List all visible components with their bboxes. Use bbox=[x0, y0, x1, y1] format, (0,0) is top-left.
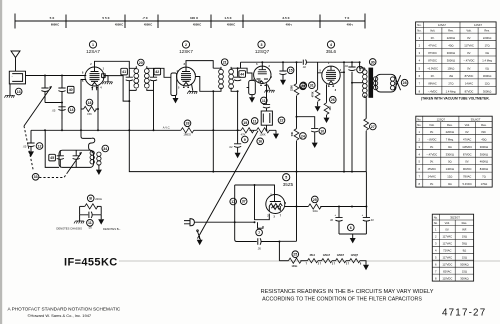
svg-text:.02: .02 bbox=[229, 145, 233, 149]
svg-text:88VAC: 88VAC bbox=[428, 82, 436, 86]
bus end B- arrow bbox=[275, 130, 277, 133]
svg-text:17: 17 bbox=[231, 200, 235, 204]
T1 primary winding bbox=[134, 69, 139, 88]
svg-text:0V.: 0V. bbox=[431, 74, 435, 78]
refs 17 36 bbox=[230, 198, 237, 205]
capacitor C12 .05 bbox=[30, 130, 32, 142]
tube V2 12SK7 label bbox=[179, 41, 193, 54]
filter B- arrow bbox=[352, 234, 354, 238]
svg-text:12SK7: 12SK7 bbox=[179, 49, 193, 54]
ref 24 bbox=[300, 133, 307, 140]
svg-text:.02: .02 bbox=[344, 64, 348, 68]
tube V3 12SQ7 envelope bbox=[254, 66, 271, 83]
tube V4 35L6 envelope bbox=[322, 66, 340, 84]
svg-text:16: 16 bbox=[258, 140, 262, 144]
wire pin34 down to bus bbox=[97, 109, 99, 130]
legend cap ref 11 bbox=[87, 220, 94, 227]
ref 27 bbox=[370, 123, 377, 130]
svg-text:No.: No. bbox=[434, 215, 438, 219]
svg-text:Volt.: Volt. bbox=[466, 29, 471, 33]
ref 16 bbox=[257, 138, 264, 145]
R31 B- arrow bbox=[317, 102, 319, 106]
svg-text:11: 11 bbox=[253, 119, 257, 123]
svg-text:30: 30 bbox=[371, 60, 375, 64]
svg-text:18: 18 bbox=[88, 101, 92, 105]
svg-text:Res.: Res. bbox=[447, 123, 453, 127]
resistor R27 bbox=[364, 119, 369, 131]
volume control R16 bbox=[249, 80, 256, 94]
svg-text:0V.: 0V. bbox=[445, 228, 449, 232]
node T2 right top bbox=[237, 67, 239, 69]
svg-text:12SK7: 12SK7 bbox=[474, 23, 483, 27]
svg-text:42: 42 bbox=[155, 70, 159, 74]
node T2 bottom right bbox=[237, 90, 239, 92]
voltage table V5 bbox=[432, 214, 473, 281]
T1 bottoms to AVC bus bbox=[129, 81, 153, 130]
svg-text:25: 25 bbox=[313, 198, 317, 202]
V1 grid stub + box 43 bbox=[104, 75, 108, 77]
svg-text:7: 7 bbox=[258, 231, 260, 235]
svg-text:11: 11 bbox=[262, 99, 266, 103]
svg-text:–.8VDC: –.8VDC bbox=[427, 137, 436, 141]
svg-text:24: 24 bbox=[301, 134, 305, 138]
svg-text:A.V.C.: A.V.C. bbox=[163, 125, 171, 129]
svg-text:0V.: 0V. bbox=[430, 182, 434, 186]
osc variable cap C1B bbox=[75, 150, 77, 155]
svg-text:26: 26 bbox=[331, 98, 335, 102]
osc coil right bbox=[97, 152, 101, 165]
svg-text:12SA7: 12SA7 bbox=[438, 23, 447, 27]
T3 secondary bbox=[373, 77, 377, 90]
svg-text:87VDC: 87VDC bbox=[463, 152, 472, 156]
svg-text:Volt.: Volt. bbox=[465, 123, 470, 127]
V2 chassis ground bbox=[192, 84, 193, 91]
resistor R19 on bus bbox=[241, 128, 254, 133]
wire R23 to junction bbox=[296, 96, 298, 129]
heater 12SQ7 bbox=[346, 254, 362, 265]
node cap40 top bbox=[61, 75, 63, 77]
svg-text:500KΩ: 500KΩ bbox=[460, 262, 468, 266]
ref 25 bbox=[292, 251, 299, 258]
legend example ref B bbox=[87, 195, 94, 202]
scale tick 6 bbox=[242, 15, 244, 29]
V3 chassis ground bbox=[268, 85, 270, 90]
T1 secondary cap C42 bbox=[150, 77, 157, 81]
V5 internals bbox=[269, 197, 282, 207]
T2 primary winding bbox=[219, 69, 224, 89]
V1 heater arrows bbox=[91, 86, 97, 90]
svg-text:35L6: 35L6 bbox=[326, 49, 337, 54]
ref 23 bbox=[300, 83, 307, 90]
V1 left cathode wire down bbox=[81, 80, 86, 131]
scale gain labels bbox=[50, 16, 351, 20]
svg-text:47VAC: 47VAC bbox=[463, 137, 471, 141]
ref 28b bbox=[184, 120, 191, 127]
svg-text:5: 5 bbox=[285, 176, 287, 180]
variable capacitor C1A (tuning) bbox=[41, 76, 48, 103]
capacitor C10 bbox=[311, 128, 318, 132]
legend resistor bbox=[80, 204, 102, 209]
gang dashed link bbox=[24, 126, 33, 170]
svg-text:4: 4 bbox=[330, 43, 332, 47]
svg-text:41: 41 bbox=[122, 70, 126, 74]
svg-text:No.: No. bbox=[417, 29, 421, 33]
svg-text:.05: .05 bbox=[23, 145, 27, 149]
box ref 42 bbox=[154, 68, 161, 75]
osc tuning arrow bbox=[68, 153, 82, 173]
svg-text:INF.: INF. bbox=[482, 130, 487, 134]
svg-text:35L6GT: 35L6GT bbox=[471, 117, 481, 121]
C9 B- arrow bbox=[235, 153, 241, 158]
svg-text:87VDC: 87VDC bbox=[465, 74, 474, 78]
svg-text:–.47VDC: –.47VDC bbox=[464, 59, 475, 63]
svg-text:39Ω: 39Ω bbox=[462, 242, 467, 246]
svg-text:B: B bbox=[89, 197, 92, 201]
svg-text:22: 22 bbox=[280, 119, 284, 123]
capacitor C7 bbox=[258, 238, 261, 244]
grid resistor R31 470K bbox=[317, 73, 319, 90]
V1 internals bbox=[90, 67, 100, 85]
svg-text:20: 20 bbox=[139, 61, 143, 65]
V1 pin numbers bbox=[82, 63, 105, 90]
ref 6 bbox=[348, 224, 355, 231]
svg-text:–.4VDC: –.4VDC bbox=[428, 89, 437, 93]
svg-text:.7 X: .7 X bbox=[142, 16, 148, 20]
svg-text:87VDC: 87VDC bbox=[465, 89, 474, 93]
ref 10 bbox=[319, 128, 326, 135]
scale tick 2 bbox=[65, 15, 67, 29]
svg-text:28: 28 bbox=[403, 81, 407, 85]
T1 secondary winding bbox=[144, 69, 149, 88]
resistor R24 bbox=[294, 129, 299, 141]
svg-text:19: 19 bbox=[243, 121, 247, 125]
svg-text:0V.: 0V. bbox=[465, 130, 469, 134]
voltage table V3/V4 bbox=[416, 116, 492, 187]
power cord wire bbox=[194, 221, 254, 223]
loop antenna L1 bbox=[9, 71, 25, 84]
wire R24 down to B+ bus bbox=[296, 141, 298, 172]
svg-text:300KΩ: 300KΩ bbox=[483, 74, 491, 78]
svg-text:400∿: 400∿ bbox=[347, 23, 354, 27]
tube V4 35L6 label bbox=[326, 41, 337, 54]
speaker voice coil bbox=[390, 77, 394, 90]
AVC bus bbox=[31, 129, 276, 131]
svg-text:300KΩ: 300KΩ bbox=[483, 89, 491, 93]
filter cap common wire bbox=[339, 233, 366, 235]
svg-text:33Ω: 33Ω bbox=[312, 209, 317, 213]
ref 18 bbox=[86, 99, 93, 106]
V3 internals bbox=[257, 66, 269, 83]
V5 pin numbers bbox=[267, 194, 287, 219]
svg-text:117VAC: 117VAC bbox=[464, 44, 474, 48]
C15 B- arrow bbox=[280, 80, 286, 85]
ref 12 bbox=[36, 143, 43, 150]
node C8 bottom rail bbox=[351, 82, 353, 84]
V2 grid resistor block bbox=[171, 73, 177, 96]
svg-text:IF=455KC: IF=455KC bbox=[64, 257, 118, 269]
svg-text:27Ω: 27Ω bbox=[448, 82, 453, 86]
svg-text:A PHOTOFACT STANDARD NOTATION: A PHOTOFACT STANDARD NOTATION SCHEMATIC bbox=[8, 306, 121, 311]
svg-text:0V.: 0V. bbox=[430, 130, 434, 134]
B+ bus lower bbox=[129, 130, 366, 171]
V1 pins 3-4 wire down bbox=[97, 86, 99, 109]
svg-text:40: 40 bbox=[69, 88, 73, 92]
T2 bottoms bbox=[213, 88, 237, 131]
svg-text:0V.: 0V. bbox=[430, 160, 434, 164]
V2 pin numbers bbox=[177, 63, 197, 93]
C12 B- arrow bbox=[28, 151, 34, 156]
svg-text:–6.9VDC: –6.9VDC bbox=[427, 66, 438, 70]
svg-text:72VAC: 72VAC bbox=[443, 249, 451, 253]
ref 15 bbox=[287, 67, 294, 74]
svg-text:12Ω: 12Ω bbox=[447, 175, 452, 179]
V4 pin numbers bbox=[320, 62, 342, 92]
node bbox=[61, 102, 63, 104]
svg-text:2: 2 bbox=[185, 43, 187, 47]
branch to C10 bbox=[297, 117, 315, 128]
C10 B- arrow bbox=[312, 143, 318, 148]
speaker cross bbox=[394, 75, 400, 90]
svg-text:5 5 X: 5 5 X bbox=[102, 16, 110, 20]
svg-text:DENOTES CHASSIS: DENOTES CHASSIS bbox=[56, 227, 82, 231]
ref 14 bbox=[68, 106, 75, 113]
wire to filter caps bbox=[320, 206, 366, 208]
V3 plate to top rail bbox=[261, 62, 263, 66]
svg-text:35Z5GT: 35Z5GT bbox=[450, 215, 460, 219]
resistor R18 bbox=[81, 106, 98, 111]
R26 B- arrow bbox=[326, 115, 328, 118]
top B+ rail bbox=[241, 62, 360, 68]
svg-text:No.: No. bbox=[434, 221, 438, 225]
svg-text:117VAC: 117VAC bbox=[442, 255, 452, 259]
svg-text:45: 45 bbox=[50, 156, 54, 160]
heater 12SK7 bbox=[332, 254, 348, 265]
svg-text:100 X: 100 X bbox=[190, 16, 199, 20]
svg-text:840KΩ: 840KΩ bbox=[480, 167, 488, 171]
V2 internals bbox=[181, 67, 191, 85]
ballast resistor R25 bbox=[279, 258, 301, 263]
ref 31 bbox=[309, 82, 316, 89]
svg-text:118VDC: 118VDC bbox=[462, 145, 472, 149]
screen bypass branch C9 bbox=[237, 130, 239, 143]
node T1 left at jog bbox=[128, 100, 130, 102]
speaker loop bbox=[376, 74, 396, 92]
svg-text:0V.: 0V. bbox=[430, 145, 434, 149]
T2 grid takeoff to volume control bbox=[238, 68, 252, 80]
chassis ground (loop) bbox=[4, 95, 14, 97]
tube V5 35Z5 label bbox=[283, 174, 294, 188]
V4 internals bbox=[326, 66, 336, 84]
svg-text:12SA7: 12SA7 bbox=[86, 49, 100, 54]
svg-text:(TAKEN WITH VACUUM TUBE VO: (TAKEN WITH VACUUM TUBE VOLTMETER. bbox=[421, 97, 490, 101]
tube V1 12SA7 envelope bbox=[85, 67, 104, 86]
svg-text:300KΩ: 300KΩ bbox=[460, 276, 468, 280]
svg-text:0V.: 0V. bbox=[467, 51, 471, 55]
T2 secondary winding bbox=[229, 69, 234, 89]
svg-text:40Ω: 40Ω bbox=[448, 44, 453, 48]
ref 30 bbox=[369, 59, 376, 66]
svg-text:7Ω: 7Ω bbox=[482, 175, 486, 179]
bus junction nodes bbox=[44, 129, 46, 131]
node V3 plate rail bbox=[261, 61, 263, 63]
svg-text:34: 34 bbox=[103, 147, 107, 151]
svg-text:19Ω: 19Ω bbox=[462, 235, 467, 239]
scale freq labels bbox=[51, 23, 354, 27]
svg-text:Volt.: Volt. bbox=[430, 29, 435, 33]
svg-text:.05: .05 bbox=[88, 226, 92, 230]
svg-text:6: 6 bbox=[350, 226, 352, 230]
svg-text:Res.: Res. bbox=[484, 29, 490, 33]
svg-text:455KC: 455KC bbox=[144, 23, 152, 27]
svg-text:INF.: INF. bbox=[462, 228, 467, 232]
line haul to C7 bbox=[235, 240, 257, 242]
svg-text:0V.: 0V. bbox=[431, 36, 435, 40]
osc padder cap C45 bbox=[59, 150, 61, 155]
ref 22 bbox=[278, 117, 285, 124]
svg-text:No.: No. bbox=[417, 117, 421, 121]
svg-text:140KΩ: 140KΩ bbox=[446, 167, 454, 171]
svg-text:0Ω: 0Ω bbox=[448, 145, 452, 149]
svg-text:15K: 15K bbox=[87, 112, 92, 116]
tube V5 35Z5 envelope bbox=[266, 195, 285, 214]
ref 25b bbox=[312, 196, 319, 203]
svg-text:14VAC: 14VAC bbox=[465, 82, 473, 86]
svg-text:14: 14 bbox=[70, 108, 74, 112]
svg-text:7 Meg.: 7 Meg. bbox=[446, 137, 454, 141]
scale tick 3 bbox=[124, 15, 126, 29]
T1 primary cap C41 bbox=[126, 77, 133, 81]
svg-text:12Ω: 12Ω bbox=[485, 82, 490, 86]
svg-text:0V.: 0V. bbox=[465, 160, 469, 164]
svg-text:12: 12 bbox=[38, 144, 42, 148]
node R18 right bbox=[97, 108, 99, 110]
ref 13 bbox=[15, 88, 22, 95]
svg-text:117VDC: 117VDC bbox=[442, 262, 452, 266]
resistor R28 1MEG on AVC bus bbox=[181, 128, 194, 133]
svg-text:600KC: 600KC bbox=[51, 23, 59, 27]
svg-text:.02: .02 bbox=[302, 65, 306, 69]
fold line (faint horizontal rule) bbox=[119, 260, 500, 262]
V1 screen jog wire bbox=[102, 75, 104, 77]
svg-text:78VAC: 78VAC bbox=[463, 175, 471, 179]
svg-text:17Ω: 17Ω bbox=[485, 44, 490, 48]
svg-text:1.4 Meg: 1.4 Meg bbox=[482, 59, 492, 63]
scale tick 1 bbox=[14, 14, 16, 29]
svg-text:0Ω: 0Ω bbox=[448, 160, 452, 164]
svg-text:40: 40 bbox=[371, 218, 374, 222]
B+ vertical 1 bbox=[343, 62, 345, 171]
B+ vertical 2 with C8 bbox=[351, 62, 353, 171]
svg-text:15Ω: 15Ω bbox=[462, 255, 467, 259]
svg-text:Res.: Res. bbox=[481, 123, 487, 127]
wire C1A to C2 bottom bbox=[45, 102, 62, 104]
legend B- arrow bbox=[100, 215, 102, 219]
capacitor C15 branch bbox=[282, 62, 284, 70]
svg-text:1.5 X: 1.5 X bbox=[224, 16, 232, 20]
loop ground lead bbox=[9, 84, 11, 95]
ref 28 bbox=[401, 79, 408, 86]
svg-text:12SQ7: 12SQ7 bbox=[351, 254, 359, 257]
svg-text:ACCORDING TO THE CONDITION OF: ACCORDING TO THE CONDITION OF THE FILTER… bbox=[262, 296, 422, 302]
legend wires bbox=[80, 206, 102, 214]
resistor R17 on bus bbox=[257, 128, 270, 133]
svg-text:330KΩ: 330KΩ bbox=[446, 152, 454, 156]
second drop wire bbox=[258, 222, 264, 228]
svg-text:50K: 50K bbox=[291, 132, 294, 137]
svg-text:Res.: Res. bbox=[462, 221, 468, 225]
svg-text:110VDC: 110VDC bbox=[442, 276, 452, 280]
tube V2 12SK7 envelope bbox=[177, 67, 196, 86]
scan edge left bbox=[0, 0, 2, 324]
svg-text:47VAC: 47VAC bbox=[428, 44, 436, 48]
gang dashed link horizontal bbox=[39, 173, 67, 178]
svg-text:27: 27 bbox=[371, 125, 375, 129]
svg-text:220KΩ: 220KΩ bbox=[447, 36, 455, 40]
svg-text:117VAC: 117VAC bbox=[442, 242, 452, 246]
svg-text:460KΩ: 460KΩ bbox=[480, 160, 488, 164]
IF transformer T1 ref 20 bbox=[138, 59, 145, 66]
ref 11b bbox=[251, 118, 258, 125]
svg-text:117VAC: 117VAC bbox=[442, 235, 452, 239]
svg-text:10: 10 bbox=[320, 129, 324, 133]
svg-text:8: 8 bbox=[359, 68, 361, 72]
svg-text:0Ω: 0Ω bbox=[485, 51, 489, 55]
left pickup vertical bbox=[45, 130, 59, 167]
drop wire to heater pin bbox=[255, 185, 270, 220]
svg-text:31: 31 bbox=[310, 84, 314, 88]
filter electrolytic C6B bbox=[365, 172, 367, 218]
svg-text:0Ω: 0Ω bbox=[448, 182, 452, 186]
V2 screen feed wire bbox=[195, 77, 213, 92]
T2 top connects bbox=[213, 67, 237, 77]
T2 secondary cap C44 bbox=[234, 77, 241, 81]
svg-text:RESISTANCE READINGS IN THE B+: RESISTANCE READINGS IN THE B+ CIRCUITS M… bbox=[261, 289, 434, 295]
svg-text:455KC: 455KC bbox=[227, 23, 235, 27]
svg-text:13: 13 bbox=[17, 90, 21, 94]
power plug bbox=[184, 219, 194, 226]
svg-text:9Ω: 9Ω bbox=[463, 249, 467, 253]
unit box to bus bbox=[266, 125, 268, 130]
C7 to heater string bbox=[261, 242, 279, 261]
lower bus nodes bbox=[212, 171, 214, 173]
svg-text:No.: No. bbox=[417, 23, 421, 27]
svg-text:47K: 47K bbox=[241, 132, 246, 136]
detector unit box bbox=[261, 111, 272, 125]
output transformer T3 primary bbox=[360, 62, 365, 70]
wire down to AVC bus bbox=[61, 103, 63, 131]
svg-text:300KΩ: 300KΩ bbox=[480, 145, 488, 149]
svg-text:3: 3 bbox=[261, 43, 263, 47]
V5 plate feed bbox=[235, 185, 275, 240]
voltage table V1/V2 bbox=[416, 22, 497, 94]
osc coil left bbox=[90, 151, 94, 164]
box ref 40 bbox=[67, 86, 74, 93]
box ref 45 bbox=[49, 154, 56, 161]
on-off switch link line bbox=[198, 131, 259, 239]
V3 heater arrows bbox=[260, 84, 266, 88]
V5 cathode wire right bbox=[285, 206, 309, 208]
svg-text:33: 33 bbox=[34, 175, 38, 179]
tube V3 12SQ7 label bbox=[255, 41, 270, 54]
svg-text:300KΩ: 300KΩ bbox=[447, 59, 455, 63]
svg-text:300KΩ: 300KΩ bbox=[480, 152, 488, 156]
V2 plate wire over to T2 bbox=[186, 61, 213, 69]
svg-text:©Howard W. Sams & Co., Inc. 19: ©Howard W. Sams & Co., Inc. 1947 bbox=[28, 313, 92, 318]
V4 cathode resistor R26 bbox=[326, 84, 328, 102]
scale tick 5 bbox=[210, 15, 212, 29]
svg-text:–.47VDC: –.47VDC bbox=[426, 152, 437, 156]
svg-text:29: 29 bbox=[301, 84, 305, 88]
